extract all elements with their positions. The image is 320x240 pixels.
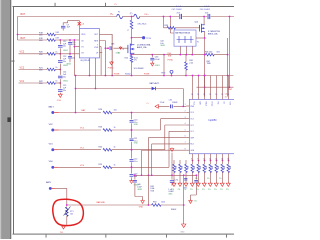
ground RN4: [190, 183, 194, 186]
svg-text:1k: 1k: [55, 52, 57, 54]
wire VD2 row: [54, 129, 59, 131]
svg-text:BAT: BAT: [21, 37, 26, 40]
wire sense to rail: [131, 62, 133, 76]
svg-text:C47 C0402: C47 C0402: [172, 9, 183, 11]
junction dots under bottom pins: [192, 160, 194, 162]
no-connect cross: [78, 22, 81, 25]
ground mid ladder: [130, 181, 134, 184]
svg-text:DVCC: DVCC: [210, 102, 212, 108]
ground mid rail: [170, 149, 174, 152]
svg-text:bq4050: bq4050: [209, 119, 218, 122]
svg-text:BAT: BAT: [21, 13, 26, 16]
wire U3 top pin stubs: [192, 97, 194, 100]
svg-text:0R(+H12): 0R(+H12): [138, 24, 147, 26]
wire horizontal rail y75.5: [74, 75, 233, 77]
svg-text:23: 23: [197, 94, 199, 96]
ground RN1: [172, 183, 176, 186]
svg-text:TDB: TDB: [198, 166, 200, 169]
svg-text:PGND: PGND: [108, 68, 114, 70]
wire BAT1 row: [54, 112, 59, 114]
wire right edge vertical: [229, 17, 231, 88]
svg-text:FUSE: FUSE: [114, 74, 120, 76]
svg-text:2.2k: 2.2k: [189, 63, 193, 65]
ground RN6: [202, 183, 206, 186]
wire bottom rail y176: [134, 174, 197, 176]
ground bottom GND: [182, 224, 186, 228]
svg-text:0R4: 0R4: [217, 52, 220, 54]
wire VD0 row: [54, 166, 59, 168]
window grey margin strip: [0, 0, 11, 239]
svg-text:C75: C75: [175, 179, 178, 181]
svg-text:AHD3_J2A: AHD3_J2A: [208, 33, 218, 36]
thermistor RT1: [66, 207, 69, 216]
wire VC1 row: [19, 82, 48, 84]
resistor RN2: [179, 160, 181, 164]
wire VC2 row: [19, 53, 48, 55]
wire C7 to gnd: [62, 28, 64, 30]
resistor RN7: [209, 157, 211, 164]
wire top rail right: [140, 16, 234, 18]
wire U3 top pin verticals: [192, 76, 194, 97]
svg-text:0.1uF: 0.1uF: [176, 6, 182, 8]
svg-text:0.1u: 0.1u: [134, 161, 138, 163]
svg-text:C0603: C0603: [172, 102, 177, 104]
svg-text:VC2: VC2: [190, 125, 193, 127]
ground C30 sideways: [155, 105, 158, 109]
wire VC1 to cap ladder: [55, 82, 60, 84]
capacitor C34: [151, 55, 153, 64]
sheet frame top border: [13, 6, 235, 7]
resistor R39: [164, 27, 168, 29]
capacitor C22: [130, 159, 134, 162]
resistor R18 rowA: [18, 34, 48, 36]
fuse F1 element2: [134, 14, 140, 18]
svg-text:GND1: GND1: [66, 64, 71, 66]
svg-text:TDB: TDB: [186, 166, 188, 169]
capacitor C46 series: [207, 14, 210, 19]
resistor R42 vertical: [185, 55, 187, 62]
wire thermistor to gnd: [66, 216, 68, 226]
svg-text:R10: R10: [125, 58, 128, 60]
svg-text:Q10: Q10: [195, 21, 199, 23]
wire R23 to U3 pin: [112, 119, 187, 130]
svg-text:BAT54HT1: BAT54HT1: [150, 82, 161, 85]
annotation red circle: [53, 199, 84, 225]
svg-text:0.1uF: 0.1uF: [204, 6, 210, 8]
svg-text:C11: C11: [72, 57, 75, 59]
frame tick marks: [54, 3, 57, 6]
wire U3 bottom pin stubs: [192, 154, 194, 157]
diode D1 BAT54HT1: [152, 87, 156, 90]
wire R35 to right vertical: [214, 54, 228, 56]
svg-text:10k: 10k: [70, 213, 73, 215]
svg-text:24: 24: [191, 94, 193, 96]
svg-text:TDB: TDB: [174, 166, 176, 169]
wire VC2b to cap ladder: [55, 69, 60, 71]
svg-text:GNF: GNF: [190, 137, 194, 139]
svg-text:C46 C0402: C46 C0402: [200, 9, 211, 11]
wire TP10 tap: [132, 37, 143, 39]
op-amp U2 BQ2914 body: [80, 29, 100, 58]
svg-text:RES: RES: [94, 40, 99, 42]
svg-text:100: 100: [114, 109, 117, 111]
svg-text:VC5: VC5: [192, 102, 194, 105]
svg-text:R0402: R0402: [171, 209, 176, 211]
wire BAT vertical drop: [17, 17, 19, 41]
resistor RN8: [215, 157, 217, 164]
wire pin V1 stub: [74, 46, 79, 48]
wire mid cap ladder column: [131, 113, 133, 181]
ground RN2: [178, 183, 182, 186]
capacitor C75: [171, 175, 173, 185]
fuse F1 element1: [117, 14, 123, 18]
svg-text:C+: C+: [147, 103, 149, 105]
capacitor C21: [130, 138, 134, 141]
svg-text:1%: 1%: [134, 60, 137, 62]
svg-text:GND: GND: [139, 207, 144, 209]
svg-text:1k: 1k: [114, 147, 116, 149]
svg-text:AHD3_J2A: AHD3_J2A: [137, 46, 147, 49]
wire C7 branch loop: [63, 21, 79, 29]
sheet frame bottom border: [13, 234, 235, 235]
wire pin GPA route: [142, 150, 187, 175]
svg-text:GND1: GND1: [63, 50, 68, 52]
svg-text:25v: 25v: [63, 61, 66, 63]
wire x183.7 vertical: [183, 175, 185, 224]
wire R50 to riser: [161, 204, 184, 206]
capacitor C7: [61, 25, 65, 28]
wire OUT pin down: [100, 34, 113, 75]
wire BAT second row: [18, 39, 48, 41]
ground RN3: [184, 183, 188, 186]
svg-text:VC2: VC2: [20, 51, 25, 54]
svg-text:1k: 1k: [55, 67, 57, 69]
svg-text:100k: 100k: [161, 202, 165, 204]
svg-text:1k: 1k: [55, 81, 57, 83]
wire diode to U3 pin1: [155, 89, 186, 107]
wire BATL to thermistor: [52, 187, 56, 189]
svg-text:1k: 1k: [114, 127, 116, 129]
svg-text:GND: GND: [168, 194, 173, 196]
svg-text:GND: GND: [134, 143, 139, 145]
svg-text:F1: F1: [118, 12, 120, 14]
wire R26 to U3 VC4 pin: [112, 112, 187, 114]
wire Q1 source to rail: [132, 53, 134, 54]
svg-text:BATGND: BATGND: [97, 201, 106, 204]
svg-text:R39: R39: [165, 25, 168, 27]
svg-text:25v: 25v: [63, 46, 66, 48]
svg-text:R23: R23: [99, 127, 102, 129]
svg-text:GND1: GND1: [160, 45, 165, 47]
svg-text:C48: C48: [111, 44, 114, 46]
resistor RN9: [221, 157, 223, 164]
ground RN5: [196, 183, 200, 186]
wire pin3 net down: [73, 47, 75, 76]
ground C41: [189, 201, 193, 204]
svg-text:TDB: TDB: [180, 166, 182, 169]
ground thermistor: [62, 226, 66, 229]
svg-text:VDD: VDD: [81, 34, 86, 36]
svg-text:TDB: TDB: [222, 166, 224, 169]
capacitor C47 series: [179, 14, 182, 19]
svg-text:BAT1: BAT1: [49, 106, 55, 109]
ground RN7: [208, 183, 212, 186]
svg-text:5%: 5%: [194, 200, 197, 202]
svg-text:VC1: VC1: [20, 80, 25, 83]
svg-text:R35 100: R35 100: [205, 51, 212, 53]
svg-text:TDB: TDB: [228, 166, 230, 169]
wire horizontal rail y88.5 to diode: [76, 88, 152, 90]
resistor RN10: [227, 157, 229, 164]
ground cap ladder: [58, 94, 62, 97]
wire Q10 source down: [204, 31, 206, 96]
capacitor C30 2.2uF: [170, 105, 173, 109]
svg-text:25: 25: [225, 97, 227, 99]
resistor RN6: [203, 157, 205, 164]
capacitor C10 between pins: [69, 40, 71, 54]
wire x164 vertical: [163, 55, 165, 76]
svg-text:VC1: VC1: [190, 131, 193, 133]
svg-text:GND: GND: [180, 231, 185, 233]
svg-text:TDB: TDB: [192, 166, 194, 169]
svg-text:19: 19: [221, 94, 223, 96]
capacitor C23: [130, 174, 134, 177]
wire BATGND riser to U3 pin: [148, 138, 186, 205]
capacitor C20: [130, 120, 134, 123]
capacitor C12: [58, 45, 63, 48]
wire LF pin stub: [100, 52, 103, 54]
svg-text:10R: 10R: [55, 32, 59, 34]
resistor RN4: [191, 157, 193, 164]
capacitor C11 between pins: [69, 54, 71, 63]
transistor Q1: [127, 45, 129, 53]
wire R39 left vertical: [163, 17, 165, 28]
svg-text:R0402: R0402: [125, 74, 131, 76]
wire rowB to pin: [55, 39, 80, 41]
svg-text:GND1: GND1: [63, 81, 68, 83]
wire VSS pin down: [100, 47, 102, 76]
sheet frame left border: [13, 6, 14, 235]
resistor RN3: [185, 160, 187, 164]
svg-text:BAT: BAT: [198, 102, 201, 105]
svg-text:22: 22: [203, 94, 205, 96]
ground RN10: [226, 183, 230, 186]
wire right block vertical: [227, 38, 229, 97]
svg-text:0.1uF: 0.1uF: [155, 59, 161, 61]
transistor Q10: [199, 25, 201, 32]
wire pin GNF route: [152, 144, 187, 175]
svg-text:21: 21: [209, 94, 211, 96]
wire U2 bottom verticals: [90, 58, 96, 89]
wire rail y87.2: [197, 86, 234, 88]
svg-text:R25: R25: [99, 164, 102, 166]
svg-text:VSS: VSS: [94, 47, 99, 49]
op-amp U3 bq4050 body: [189, 99, 235, 153]
svg-text:TP14: TP14: [161, 73, 166, 75]
grey strip marker: [7, 117, 11, 122]
svg-text:VC4: VC4: [190, 112, 193, 114]
capacitor C48 inline gate: [109, 46, 112, 50]
svg-text:GND2: GND2: [137, 189, 142, 191]
svg-text:GAE HAUSYGBGA: GAE HAUSYGBGA: [175, 31, 191, 34]
svg-text:BATL: BATL: [46, 181, 52, 184]
svg-text:R26: R26: [99, 109, 102, 111]
svg-text:1k: 1k: [114, 164, 116, 166]
svg-text:TDB: TDB: [210, 166, 212, 169]
wire U4 bottom stubs: [180, 46, 192, 54]
wire source rail y54.6: [132, 54, 205, 56]
svg-text:GND: GND: [134, 124, 139, 126]
resistor R35: [205, 53, 214, 56]
svg-text:S1: S1: [118, 53, 120, 55]
ground C40: [141, 201, 145, 204]
svg-text:25v: 25v: [63, 76, 66, 78]
svg-text:C9: C9: [190, 200, 192, 202]
op-amp U4 dual FET body: [174, 30, 196, 46]
svg-text:1: 1: [185, 104, 186, 106]
ground C34: [151, 63, 154, 66]
wire VC2b row: [19, 69, 48, 71]
svg-text:R24: R24: [99, 146, 102, 148]
svg-text:BQ2914B: BQ2914B: [81, 60, 91, 62]
test point TP14: [170, 70, 173, 73]
wire gnd to C75: [171, 153, 173, 176]
svg-text:C4: C4: [225, 94, 227, 96]
wire rail to U4 block: [170, 17, 174, 34]
wire R24 to U3 pin: [112, 125, 187, 150]
wire VD1 row: [54, 149, 59, 151]
page background: [0, 0, 234, 239]
wire cap ladder column: [59, 40, 61, 94]
wire RES pin down: [100, 41, 106, 76]
svg-text:10R: 10R: [55, 38, 59, 40]
svg-text:PGND: PGND: [168, 59, 174, 61]
ground RN9: [220, 183, 224, 186]
resistor R17 sense: [131, 54, 133, 57]
wire BAT top rail: [18, 16, 117, 18]
capacitor C40: [135, 175, 143, 200]
wire VC2 to pin: [55, 53, 80, 55]
capacitor C13: [58, 60, 63, 63]
capacitor C15: [58, 89, 63, 92]
svg-text:(P): (P): [130, 13, 133, 15]
test point TP10: [142, 36, 145, 39]
capacitor C14: [58, 75, 63, 78]
wire rowA to VDD pin: [55, 34, 80, 36]
svg-text:0.1u: 0.1u: [72, 44, 76, 46]
svg-text:GND2: GND2: [155, 65, 160, 67]
wire U3 left pin stubs: [186, 105, 189, 107]
resistor RN1: [173, 160, 175, 164]
wire R16 to Q1 drain: [131, 29, 133, 46]
wire BATGND rail: [67, 204, 152, 206]
svg-text:25v: 25v: [63, 90, 66, 92]
ground PGND near gate: [119, 47, 122, 49]
svg-text:MC1: MC1: [190, 144, 194, 146]
svg-text:VC2: VC2: [20, 66, 25, 69]
resistor RN5: [197, 157, 199, 164]
wire left pins vertical: [73, 40, 75, 47]
wire Q10 drain to top rail: [203, 17, 205, 25]
wire R25 to U3 pin: [112, 131, 187, 167]
wire U4 to Q10 source net: [196, 37, 205, 39]
svg-text:18: 18: [227, 94, 229, 96]
svg-text:S 10 R0402: S 10 R0402: [134, 68, 144, 70]
capacitor C41: [191, 175, 197, 200]
svg-text:R50: R50: [153, 202, 156, 204]
capacitor C42 small: [184, 178, 187, 181]
wire R39 to Q10 gate: [175, 25, 200, 28]
wire mid fuse: [123, 16, 134, 18]
wire rail vertical x75.5: [75, 76, 77, 113]
svg-text:PK+: PK+: [145, 14, 150, 16]
ground RN8: [214, 183, 218, 186]
svg-text:TDB: TDB: [204, 166, 206, 169]
svg-text:20: 20: [215, 94, 217, 96]
resistor R16 vertical: [131, 17, 133, 21]
wire gate node: [105, 47, 128, 49]
svg-text:TDB: TDB: [216, 166, 218, 169]
svg-text:FUSE: FUSE: [144, 74, 150, 76]
svg-text:VC3: VC3: [190, 119, 193, 121]
